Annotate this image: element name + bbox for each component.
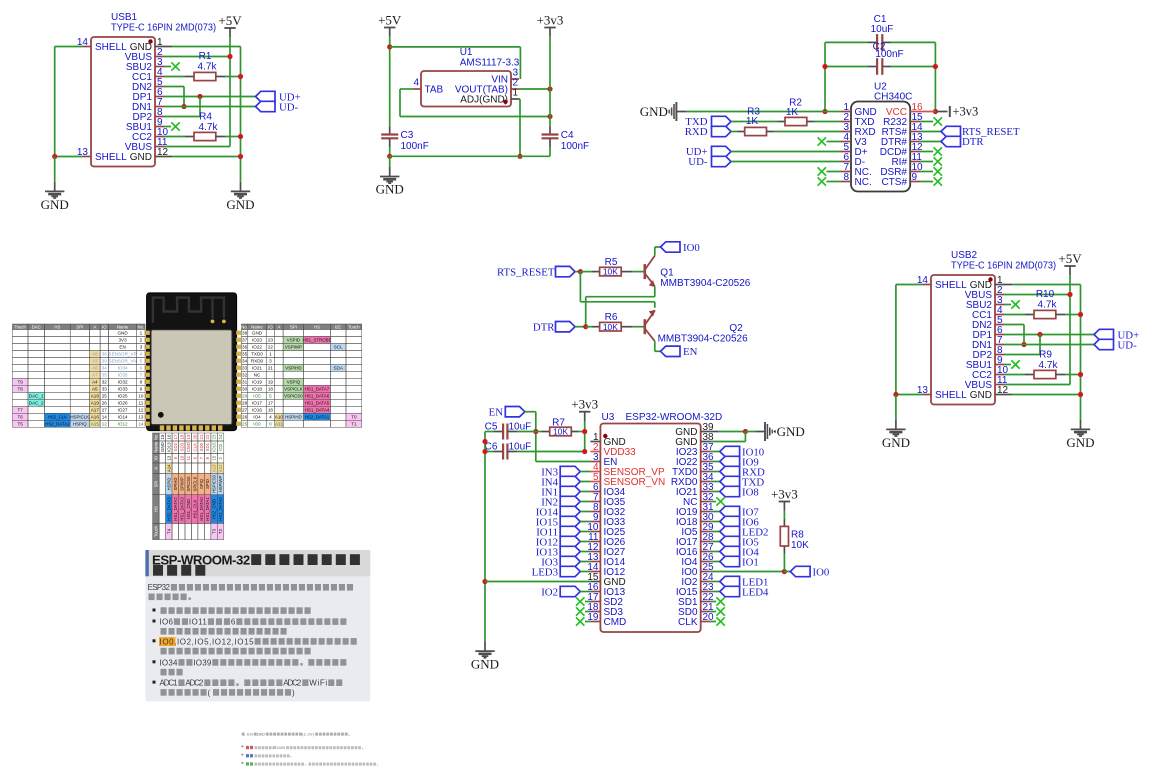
svg-text:IO25: IO25 — [118, 394, 128, 399]
pin 1 ADJ(GND) — [511, 98, 519, 100]
pin 35 TXD0 U3 — [701, 471, 711, 473]
pin 31 IO19 U3 — [701, 511, 711, 513]
pin 5 DN2 — [995, 324, 1004, 326]
pin 38 GND U3 — [701, 441, 711, 443]
wire pin7 DN1 / UD- — [164, 106, 256, 108]
gnd rail U3 left — [484, 432, 486, 642]
svg-text:TAB: TAB — [425, 85, 444, 96]
svg-text:19: 19 — [268, 380, 274, 385]
svg-text:T7: T7 — [18, 408, 24, 413]
svg-text:IO1: IO1 — [742, 556, 759, 568]
svg-text:10K: 10K — [791, 540, 809, 551]
svg-text:SPIQ: SPIQ — [199, 478, 204, 489]
svg-text:5: 5 — [140, 359, 143, 364]
svg-text:29: 29 — [242, 394, 248, 399]
svg-text:ADC2: ADC2 — [283, 679, 301, 688]
svg-text:GND: GND — [41, 197, 69, 212]
svg-text:10uF: 10uF — [871, 24, 894, 35]
svg-text:4.7k: 4.7k — [1039, 360, 1059, 371]
pin 20 CLK U3 — [701, 621, 711, 623]
wire cap rails — [824, 42, 826, 111]
wire +5V to VIN — [390, 46, 521, 48]
net flag RTS_RESET Q1 — [556, 266, 576, 276]
net flag LED3 — [560, 566, 580, 576]
net flag IO15 — [560, 516, 580, 526]
net flag TXD — [711, 481, 720, 483]
pin 3 SBU2 — [995, 304, 1004, 306]
svg-text:R5: R5 — [605, 257, 618, 268]
svg-text:VSPIWP: VSPIWP — [285, 345, 302, 350]
svg-text:Touch: Touch — [14, 324, 26, 329]
svg-text:No.: No. — [138, 324, 145, 329]
svg-text:17: 17 — [268, 401, 274, 406]
svg-text:DTR: DTR — [962, 136, 984, 148]
svg-text:VSPID: VSPID — [287, 338, 300, 343]
ground U1 — [389, 156, 391, 167]
resistor R9 4.7k CC2 — [1004, 374, 1025, 376]
wire pin38 GND U3 — [711, 441, 746, 443]
svg-text:No.: No. — [153, 434, 158, 440]
pin 17 SD2 U3 — [590, 601, 600, 603]
net flag IN1 — [560, 486, 580, 496]
no-connect SD1 SD0 CLK — [711, 601, 716, 603]
pin 3 VIN — [511, 78, 519, 80]
svg-text:HSPICS0: HSPICS0 — [212, 474, 217, 493]
pin 36 IO22 U3 — [701, 461, 711, 463]
pin 9 CTS# U2 — [910, 181, 920, 183]
svg-text:UD-: UD- — [688, 156, 708, 168]
svg-text:HS1_DATA3: HS1_DATA3 — [179, 497, 184, 521]
wire pin5 DN2 — [1004, 324, 1024, 326]
pin 11 RI# U2 — [910, 161, 920, 163]
net flag RTS_RESET — [920, 131, 941, 133]
net flag IO12 — [560, 536, 580, 546]
svg-text:SPI: SPI — [76, 324, 83, 329]
svg-text:T2: T2 — [218, 528, 223, 534]
svg-text:15: 15 — [212, 455, 217, 460]
svg-text:4.7k: 4.7k — [199, 122, 219, 133]
svg-text:IO15: IO15 — [212, 442, 217, 452]
net flag IO2 U3 — [560, 586, 580, 596]
net flag TXD — [712, 116, 732, 126]
svg-text:7: 7 — [140, 373, 143, 378]
svg-text:+5V: +5V — [218, 13, 242, 28]
pin 2 VBUS — [995, 294, 1004, 296]
svg-text:14: 14 — [138, 422, 144, 427]
pin 5 DN2 — [155, 86, 164, 88]
svg-text:23: 23 — [268, 338, 274, 343]
svg-text:IO18: IO18 — [252, 387, 262, 392]
pin 3 SBU2 — [155, 66, 164, 68]
wire pin8 DP2 — [164, 116, 200, 118]
pin 4 V3 U2 — [841, 141, 851, 143]
pin 26 IO4 U3 — [701, 561, 711, 563]
svg-text:13: 13 — [166, 455, 171, 460]
svg-text:32: 32 — [102, 380, 108, 385]
svg-text:IO0: IO0 — [253, 422, 261, 427]
svg-text:UD-: UD- — [1118, 339, 1138, 351]
svg-text:SPID: SPID — [205, 479, 210, 489]
svg-text:SPICLK: SPICLK — [192, 476, 197, 491]
svg-text:+3v3: +3v3 — [537, 12, 564, 27]
pin 6 D- U2 — [841, 161, 851, 163]
svg-text:CMD: CMD — [604, 617, 627, 628]
transistor Q1 MMBT3904 — [643, 264, 646, 279]
svg-text:R6: R6 — [605, 312, 618, 323]
svg-text:IO6: IO6 — [160, 618, 174, 627]
wire pin11 VBUS — [164, 146, 230, 148]
pin 7 DN1 — [155, 106, 164, 108]
svg-text:IO4: IO4 — [253, 415, 261, 420]
pin 1 GND U3 — [590, 441, 600, 443]
svg-text:A18: A18 — [91, 394, 100, 399]
svg-text:A17: A17 — [91, 408, 100, 413]
svg-text:SD0: SD0 — [199, 442, 204, 451]
svg-text:C4: C4 — [561, 130, 574, 141]
resistor R8 10K — [780, 526, 788, 546]
svg-text:27: 27 — [102, 408, 108, 413]
no-connect NC pin32 — [711, 501, 716, 503]
svg-text:39: 39 — [102, 359, 108, 364]
svg-text:A5: A5 — [92, 387, 98, 392]
svg-text:CLK: CLK — [192, 443, 197, 452]
svg-text:+3v3: +3v3 — [571, 397, 598, 412]
svg-text:Name: Name — [251, 324, 263, 329]
svg-text:A3: A3 — [92, 359, 98, 364]
net flag IO11 — [560, 526, 580, 536]
svg-text:21: 21 — [268, 366, 274, 371]
svg-text:27: 27 — [242, 408, 248, 413]
pin 19 CMD U3 — [590, 621, 600, 623]
svg-text:100nF: 100nF — [875, 49, 903, 60]
svg-text:IO17: IO17 — [252, 401, 262, 406]
svg-text:19: 19 — [186, 434, 191, 439]
svg-text:30: 30 — [242, 387, 248, 392]
svg-text:4: 4 — [269, 415, 272, 420]
svg-text:2: 2 — [140, 338, 143, 343]
svg-text:IO: IO — [153, 456, 158, 460]
svg-text:A6: A6 — [92, 366, 98, 371]
svg-text:10K: 10K — [603, 267, 618, 277]
pin 22 SD1 U3 — [701, 601, 711, 603]
svg-text:12: 12 — [138, 408, 144, 413]
resistor R5 10K — [580, 271, 592, 273]
svg-text:4.7k: 4.7k — [198, 62, 218, 73]
svg-text:USB2: USB2 — [951, 250, 978, 261]
svg-text:U1: U1 — [460, 47, 473, 58]
svg-text:GND: GND — [471, 656, 499, 671]
svg-text:1: 1 — [513, 88, 519, 99]
pin 9 IO33 U3 — [590, 521, 600, 523]
ground right — [240, 182, 242, 191]
no-connect NC pins — [827, 171, 842, 173]
svg-text:21: 21 — [199, 434, 204, 439]
net flag IO8 — [711, 491, 720, 493]
no-connect pin3 — [1004, 304, 1011, 306]
wire VCC to +3v3 — [920, 111, 935, 113]
pin 39 GND U3 — [701, 431, 711, 433]
svg-text:16: 16 — [166, 434, 171, 439]
net flag IN2 — [560, 496, 580, 506]
svg-text:IO8: IO8 — [742, 486, 759, 498]
svg-text:IO21: IO21 — [252, 366, 262, 371]
net flag IO6 — [711, 521, 720, 523]
svg-text:31: 31 — [242, 380, 248, 385]
svg-text:9: 9 — [140, 387, 143, 392]
svg-text:HS1_DATA0: HS1_DATA0 — [199, 497, 204, 521]
pin 11 VBUS — [155, 146, 164, 148]
pin 29 IO5 U3 — [701, 531, 711, 533]
wire pin11 VBUS — [1004, 384, 1070, 386]
svg-text:A: A — [93, 324, 96, 329]
bottom pin table (rotated) — [153, 433, 224, 540]
svg-text:11: 11 — [139, 401, 144, 406]
pin 10 IO25 U3 — [590, 531, 600, 533]
svg-text:26: 26 — [102, 401, 108, 406]
resistor R1 4.7k CC1 — [164, 76, 185, 78]
net flag IN4 — [560, 476, 580, 486]
net flag UD- U2 — [712, 156, 732, 166]
wire shell left rail — [896, 284, 923, 286]
svg-text:IO22: IO22 — [252, 345, 262, 350]
svg-text:SPIHD: SPIHD — [173, 478, 178, 491]
ground right — [1080, 420, 1082, 429]
svg-text:WiFi: WiFi — [309, 679, 327, 688]
svg-text:Touch: Touch — [153, 525, 158, 537]
pin 21 SD0 U3 — [701, 611, 711, 613]
net flag IN3 — [560, 466, 580, 476]
svg-text:38: 38 — [242, 331, 248, 336]
net flag IO0 Q1 — [654, 247, 656, 256]
svg-text:HSPIQ: HSPIQ — [73, 422, 87, 427]
net flag IO5 — [711, 541, 720, 543]
svg-text:16: 16 — [268, 408, 274, 413]
svg-text:IO26: IO26 — [118, 401, 128, 406]
svg-text:EN: EN — [489, 406, 504, 418]
svg-text:9: 9 — [912, 172, 918, 183]
svg-text:IO35: IO35 — [118, 373, 128, 378]
svg-text:MMBT3904-C20526: MMBT3904-C20526 — [658, 333, 748, 344]
svg-text:IO0: IO0 — [683, 242, 700, 254]
no-connect pin9 — [1004, 364, 1011, 366]
svg-text:(3.3V): (3.3V) — [302, 733, 314, 737]
ground left — [54, 157, 56, 182]
svg-text:37: 37 — [242, 338, 248, 343]
svg-text:A10: A10 — [275, 415, 284, 420]
svg-text:R10: R10 — [1036, 289, 1055, 300]
pin 14 RTS# U2 — [910, 131, 920, 133]
svg-text:SPI: SPI — [153, 481, 158, 488]
svg-text:IO13: IO13 — [166, 442, 171, 452]
svg-text:T4: T4 — [166, 528, 171, 534]
wire RTS to Q2 collector — [579, 272, 581, 302]
capacitor C3 100nF — [389, 127, 391, 135]
svg-text:U3: U3 — [602, 412, 615, 423]
pin 12 IO27 U3 — [590, 551, 600, 553]
svg-text:GND: GND — [160, 442, 165, 452]
pin 24 IO2 U3 — [701, 581, 711, 583]
svg-text:HS2_DATA1: HS2_DATA1 — [305, 415, 330, 420]
svg-text:A16: A16 — [91, 415, 100, 420]
wire pin2 VBUS to +5V — [164, 56, 230, 58]
svg-text:IO2: IO2 — [218, 443, 223, 451]
svg-text:MMBT3904-C20526: MMBT3904-C20526 — [660, 278, 750, 289]
pin 12 DCD# U2 — [910, 151, 920, 153]
svg-text:CTS#: CTS# — [881, 177, 907, 188]
svg-text:SHELL: SHELL — [935, 280, 967, 291]
svg-text:18: 18 — [179, 434, 184, 439]
svg-text:18: 18 — [268, 387, 274, 392]
bottom tiny gray text — [242, 733, 379, 766]
svg-text:A: A — [153, 467, 158, 470]
svg-text:IO0,IO2,IO5,IO12,IO15: IO0,IO2,IO5,IO12,IO15 — [160, 637, 255, 646]
svg-text:AMS1117-3.3: AMS1117-3.3 — [460, 57, 520, 68]
pin 32 NC U3 — [701, 501, 711, 503]
svg-text:SENSOR_VP: SENSOR_VP — [109, 352, 137, 357]
svg-text:IO23: IO23 — [252, 338, 262, 343]
svg-text:VSPICS0: VSPICS0 — [284, 394, 303, 399]
svg-text:No.: No. — [241, 324, 248, 329]
pin 34 RXD0 U3 — [701, 481, 711, 483]
svg-text:25: 25 — [242, 422, 248, 427]
svg-text:17: 17 — [173, 434, 178, 439]
pin 4 SENSOR_VP U3 — [590, 471, 600, 473]
svg-text:IO19: IO19 — [252, 380, 262, 385]
svg-text:6: 6 — [231, 618, 236, 627]
svg-text:Name: Name — [153, 441, 158, 453]
svg-text:LED4: LED4 — [742, 586, 769, 598]
pin 10 DSR# U2 — [910, 171, 920, 173]
svg-text:T8: T8 — [18, 387, 24, 392]
svg-text:T1: T1 — [351, 422, 357, 427]
svg-text:25: 25 — [102, 394, 108, 399]
svg-text:EN: EN — [683, 346, 698, 358]
pin 1 GND U2 — [841, 111, 851, 113]
svg-text:R7: R7 — [552, 417, 565, 428]
net flag DTR — [920, 141, 941, 143]
svg-text:10K: 10K — [603, 322, 618, 332]
svg-text:HS1_DATA2: HS1_DATA2 — [173, 497, 178, 521]
pin 2 VDD33 U3 — [590, 451, 600, 453]
svg-text:SHELL: SHELL — [935, 390, 967, 401]
svg-text:HSPIWP: HSPIWP — [218, 476, 223, 493]
no-connect R232 — [920, 121, 933, 123]
svg-text:GND: GND — [130, 152, 152, 163]
pin 11 VBUS — [995, 384, 1004, 386]
svg-text:VSPICLK: VSPICLK — [284, 387, 303, 392]
pin 10 CC2 — [995, 374, 1004, 376]
svg-text:33: 33 — [102, 387, 108, 392]
svg-text:CLK: CLK — [678, 617, 698, 628]
net flag IO0 U3 — [790, 566, 810, 576]
svg-text:GND: GND — [117, 331, 128, 336]
svg-text:23: 23 — [212, 434, 217, 439]
resistor R3 1K — [731, 131, 738, 133]
svg-text:HS1_DATA1: HS1_DATA1 — [205, 497, 210, 521]
svg-text:6: 6 — [140, 366, 143, 371]
svg-text:34: 34 — [102, 366, 108, 371]
svg-text:IO34: IO34 — [160, 658, 178, 667]
svg-text:8: 8 — [140, 380, 143, 385]
svg-text:HS2_DATA3: HS2_DATA3 — [166, 497, 171, 521]
svg-text:35: 35 — [242, 352, 248, 357]
svg-text:24: 24 — [218, 434, 223, 439]
svg-text:C3: C3 — [401, 130, 414, 141]
svg-text:SCL: SCL — [334, 345, 343, 350]
svg-text:HSPID: HSPID — [166, 478, 171, 491]
pin 6 DP1 — [995, 334, 1004, 336]
svg-text:VSPIHD: VSPIHD — [285, 366, 301, 371]
pin 14 SHELL — [83, 46, 91, 48]
pin 13 SHELL — [923, 394, 931, 396]
svg-text:IO12: IO12 — [118, 422, 128, 427]
svg-text:10: 10 — [138, 394, 144, 399]
svg-text:10kΩ: 10kΩ — [257, 733, 266, 737]
pin 15 GND U3 — [590, 581, 600, 583]
svg-text:3: 3 — [269, 359, 272, 364]
pin 9 SBU1 — [995, 364, 1004, 366]
svg-text:4: 4 — [140, 352, 143, 357]
resistor R7 10K — [536, 431, 542, 433]
svg-text:1: 1 — [140, 331, 143, 336]
wire pin1 GND to right rail — [164, 46, 172, 48]
wire Q1 emitter to DTR — [654, 287, 656, 297]
svg-text:A7: A7 — [92, 373, 98, 378]
svg-text:35: 35 — [102, 373, 108, 378]
svg-text:): ) — [292, 688, 295, 697]
pin 18 SD3 U3 — [590, 611, 600, 613]
notes panel ESP-WROOM-32 — [145, 550, 370, 701]
no-connect SD2 SD3 CMD — [585, 601, 590, 603]
svg-text:SPIWP: SPIWP — [179, 477, 184, 491]
svg-text:+5V: +5V — [378, 12, 402, 27]
svg-text:36: 36 — [242, 345, 248, 350]
svg-text:HS1_DATA4: HS1_DATA4 — [305, 408, 330, 413]
svg-text:IO14: IO14 — [118, 415, 128, 420]
svg-text:SDA: SDA — [333, 366, 343, 371]
svg-text:Q1: Q1 — [660, 267, 674, 278]
svg-text:4.7k: 4.7k — [1038, 300, 1058, 311]
svg-text:26: 26 — [242, 415, 248, 420]
wire pin5 DN2 — [164, 86, 184, 88]
net flag LED4 — [711, 591, 720, 593]
pin 9 SBU1 — [155, 126, 164, 128]
svg-text:DAC_2: DAC_2 — [29, 401, 44, 406]
svg-text:A19: A19 — [91, 401, 100, 406]
svg-text:HS1_DATA5: HS1_DATA5 — [305, 401, 330, 406]
svg-text:+5V: +5V — [1058, 251, 1082, 266]
svg-text:HS1_STROBE: HS1_STROBE — [302, 338, 331, 343]
svg-text:33: 33 — [242, 366, 248, 371]
pin 27 IO16 U3 — [701, 551, 711, 553]
pin 15 R232 U2 — [910, 121, 920, 123]
svg-text:GND: GND — [882, 435, 910, 450]
port GND right U3 — [711, 431, 718, 433]
svg-text:IO33: IO33 — [118, 387, 128, 392]
resistor R2 1K — [731, 121, 778, 123]
pin 2 TXD U2 — [841, 121, 851, 123]
resistor R4 4.7k CC2 — [164, 136, 185, 138]
pin 7 DN1 — [995, 344, 1004, 346]
svg-text:Touch: Touch — [348, 324, 360, 329]
ground U3 — [484, 642, 486, 651]
wire pin12 GND — [1004, 394, 1012, 396]
svg-text:ADC1: ADC1 — [160, 679, 178, 688]
pin 8 NC. U2 — [841, 181, 851, 183]
svg-text:3V3: 3V3 — [119, 338, 128, 343]
svg-text:100nF: 100nF — [401, 141, 429, 152]
svg-text:IO0: IO0 — [813, 566, 830, 578]
